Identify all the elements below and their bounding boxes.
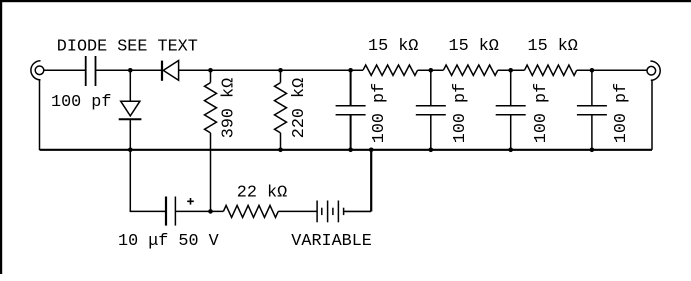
node A junction (top, diode branch)	[128, 68, 133, 73]
wire top rail left	[44, 69, 647, 71]
wire C6 to node B	[175, 210, 223, 212]
capacitor C2 100 pf (first shunt, bold)	[336, 70, 366, 149]
capacitor C4 100 pf	[496, 70, 526, 149]
wire stub up to ground rail	[370, 150, 372, 212]
svg-text:VARIABLE: VARIABLE	[291, 232, 372, 251]
svg-text:15 kΩ: 15 kΩ	[528, 37, 578, 56]
node junction C3 bottom	[429, 148, 434, 153]
node junction R1 top	[208, 68, 213, 73]
node junction R2 bottom	[278, 148, 283, 153]
svg-text:22 kΩ: 22 kΩ	[237, 184, 287, 203]
node B junction (bias loop)	[208, 209, 213, 214]
node junction C4 top	[508, 68, 513, 73]
node junction C2 top	[348, 68, 353, 73]
svg-text:15 kΩ: 15 kΩ	[368, 37, 418, 56]
node junction C4 bottom	[508, 148, 513, 153]
node junction D1 bottom rail	[128, 148, 133, 153]
capacitor C1 100 pf (series input)	[86, 56, 96, 86]
svg-text:DIODE SEE TEXT: DIODE SEE TEXT	[57, 38, 198, 57]
node junction C5 bottom	[590, 148, 595, 153]
node junction R2 top	[278, 68, 283, 73]
battery BT1 VARIABLE	[317, 201, 344, 223]
capacitor C6 10 uf 50 V (electrolytic)	[166, 197, 175, 226]
diode D1 (shunt, vertical)	[119, 70, 142, 149]
resistor R4 15 kOhm	[443, 65, 497, 75]
capacitor C3 100 pf	[416, 70, 446, 149]
svg-text:15 kΩ: 15 kΩ	[449, 37, 499, 56]
resistor R3 15 kOhm	[363, 65, 418, 75]
node junction C3 top	[429, 68, 434, 73]
svg-text:100 pf: 100 pf	[532, 83, 551, 143]
border frame left	[0, 0, 2, 274]
border frame top	[0, 0, 691, 2]
svg-text:100 pf: 100 pf	[51, 93, 111, 112]
wire battery to stub	[344, 210, 372, 212]
svg-text:220 kΩ: 220 kΩ	[290, 78, 309, 138]
resistor R5 15 kOhm	[525, 65, 577, 75]
polarity plus sign C6	[187, 198, 194, 205]
wire R6 to battery	[278, 210, 317, 212]
resistor R6 22 kOhm	[223, 205, 278, 217]
svg-text:10 μf 50 V: 10 μf 50 V	[118, 232, 219, 251]
wire bias loop left (down from node A rail)	[130, 151, 165, 212]
wire bottom ground rail	[40, 149, 653, 151]
node junction C5 top	[590, 68, 595, 73]
resistor R2 220 kOhm (vertical)	[275, 70, 287, 149]
svg-text:100 pf: 100 pf	[451, 83, 470, 143]
diode D2 (series, pointing left)	[162, 61, 179, 81]
terminal J1 (left input)	[31, 61, 44, 80]
node junction battery stub rail	[369, 148, 374, 153]
capacitor C5 100 pf	[577, 70, 607, 149]
svg-text:390 kΩ: 390 kΩ	[220, 78, 239, 138]
wire right side down	[651, 80, 653, 149]
resistor R1 390 kOhm (vertical)	[205, 70, 217, 211]
svg-text:100 pf: 100 pf	[612, 83, 631, 143]
svg-text:100 pf: 100 pf	[370, 83, 389, 143]
terminal J2 (right output)	[647, 61, 660, 80]
wire left side down	[39, 80, 41, 150]
node junction C2 bottom	[348, 148, 353, 153]
